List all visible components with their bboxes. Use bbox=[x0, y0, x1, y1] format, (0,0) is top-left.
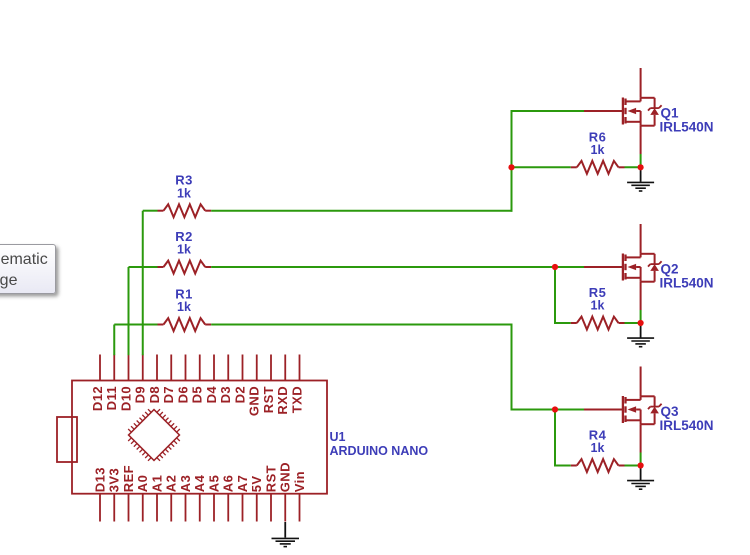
U1 bottom pin A2 bbox=[170, 494, 172, 522]
svg-text:A6: A6 bbox=[221, 475, 236, 492]
wire net to R1 left bbox=[114, 324, 157, 326]
svg-text:RST: RST bbox=[264, 465, 279, 492]
svg-text:5V: 5V bbox=[249, 475, 264, 492]
svg-text:REF: REF bbox=[121, 465, 136, 492]
svg-text:RXD: RXD bbox=[275, 386, 290, 415]
svg-text:U1: U1 bbox=[330, 430, 346, 444]
svg-text:D6: D6 bbox=[175, 386, 190, 403]
U1 bottom pin 5V bbox=[256, 494, 258, 522]
svg-text:IRL540N: IRL540N bbox=[660, 120, 714, 135]
U1 top pin D6 bbox=[185, 355, 187, 381]
svg-text:D4: D4 bbox=[204, 386, 219, 404]
U1 top pin D10 bbox=[128, 355, 130, 381]
wire D11 column bbox=[113, 325, 115, 356]
wire branch to R5 bbox=[554, 322, 571, 324]
svg-text:D10: D10 bbox=[118, 386, 133, 411]
svg-text:1k: 1k bbox=[591, 299, 605, 313]
ground at Q2 source bbox=[627, 326, 654, 347]
U1 top pin D3 bbox=[227, 355, 229, 381]
resistor R3 bbox=[158, 204, 212, 217]
wire D10 column bbox=[128, 267, 130, 355]
wire Q1 source to ground net bbox=[640, 154, 642, 167]
U1 bottom pin D13 bbox=[99, 494, 101, 522]
wire net to R5 left bbox=[570, 322, 572, 324]
U1 bottom pin Vin bbox=[299, 494, 301, 522]
junction Q1 source ground node bbox=[638, 164, 644, 170]
resistor R5 bbox=[571, 317, 625, 330]
U1 bottom pin 3V3 bbox=[113, 494, 115, 522]
U1 bottom pin A4 bbox=[199, 494, 201, 522]
transistor Q3 IRL540N bbox=[584, 367, 662, 453]
U1 bottom pin A6 bbox=[227, 494, 229, 522]
svg-text:A5: A5 bbox=[207, 475, 222, 492]
svg-text:RST: RST bbox=[261, 386, 276, 413]
svg-text:D9: D9 bbox=[133, 386, 148, 403]
svg-text:IRL540N: IRL540N bbox=[660, 418, 714, 433]
svg-text:D13: D13 bbox=[93, 467, 108, 492]
U1 top pin RXD bbox=[284, 355, 286, 381]
svg-text:A3: A3 bbox=[178, 475, 193, 492]
wire net to R3 left bbox=[143, 210, 158, 212]
wire branch dropper to R5 bbox=[554, 267, 556, 324]
svg-text:D7: D7 bbox=[161, 386, 176, 403]
tooltip Schematic Image bbox=[0, 244, 56, 294]
wire net to R2 left bbox=[129, 266, 158, 268]
svg-text:Q2: Q2 bbox=[661, 262, 679, 277]
U1 top pin D5 bbox=[199, 355, 201, 381]
U1 top pin RST bbox=[270, 355, 272, 381]
svg-text:GND: GND bbox=[278, 462, 293, 492]
U1 top pin TXD bbox=[299, 355, 301, 381]
wire Q3 source to ground net bbox=[640, 453, 642, 466]
svg-text:A0: A0 bbox=[135, 475, 150, 492]
svg-text:D8: D8 bbox=[147, 386, 162, 403]
wire branch to R4 bbox=[554, 465, 571, 467]
svg-text:D11: D11 bbox=[104, 386, 119, 410]
svg-text:1k: 1k bbox=[177, 300, 191, 314]
wire R5 right to net bbox=[625, 322, 641, 324]
wire branch dropper to R4 bbox=[554, 410, 556, 467]
IC U1 ARDUINO NANO body bbox=[72, 381, 327, 494]
transistor Q1 IRL540N bbox=[584, 68, 662, 154]
U1 microcontroller chip glyph bbox=[122, 403, 186, 467]
U1 top pin D8 bbox=[156, 355, 158, 381]
svg-text:A2: A2 bbox=[164, 475, 179, 492]
svg-text:A1: A1 bbox=[150, 475, 165, 492]
wire R1 right to net bbox=[211, 324, 512, 326]
svg-text:Vin: Vin bbox=[292, 471, 307, 492]
U1 top pin D11 bbox=[113, 355, 115, 381]
wire R1 net dropper to Q3 gate bbox=[511, 324, 513, 411]
U1 top pin D9 bbox=[142, 355, 144, 381]
U1 top pin GND bbox=[256, 355, 258, 381]
svg-text:3V3: 3V3 bbox=[107, 468, 122, 492]
junction Q2 source ground node bbox=[638, 320, 644, 326]
ground at Q3 source bbox=[627, 468, 654, 489]
svg-text:1k: 1k bbox=[591, 143, 605, 157]
resistor R2 bbox=[158, 261, 212, 274]
U1 top pin D12 bbox=[99, 355, 101, 381]
svg-text:D5: D5 bbox=[190, 386, 205, 403]
U1 bottom pin A5 bbox=[213, 494, 215, 522]
wire D9 column bbox=[142, 211, 144, 356]
svg-text:1k: 1k bbox=[177, 186, 191, 200]
wire Q2 source to ground net bbox=[640, 310, 642, 323]
junction R4 tap on Q3 gate net bbox=[552, 406, 558, 412]
junction R5 tap on Q2 gate net bbox=[552, 264, 558, 270]
U1 top pin D2 bbox=[242, 355, 244, 381]
svg-text:D12: D12 bbox=[90, 386, 105, 411]
resistor R4 bbox=[571, 459, 625, 472]
ground at Q1 source bbox=[627, 170, 654, 191]
resistor R1 bbox=[158, 318, 212, 331]
wire R4 right to net bbox=[625, 465, 641, 467]
svg-text:IRL540N: IRL540N bbox=[660, 276, 714, 291]
wire R2 right to net bbox=[211, 266, 584, 268]
U1 bottom pin A3 bbox=[185, 494, 187, 522]
U1 top pin D4 bbox=[213, 355, 215, 381]
svg-text:Q1: Q1 bbox=[661, 106, 680, 121]
U1 bottom pin A7 bbox=[242, 494, 244, 522]
U1 top pin D7 bbox=[170, 355, 172, 381]
wire R3 right to net bbox=[211, 210, 512, 212]
wire net to R4 left bbox=[570, 465, 572, 467]
svg-text:D3: D3 bbox=[218, 386, 233, 403]
ground GND of U1 bbox=[272, 522, 300, 547]
wire R6 right to net bbox=[625, 166, 641, 168]
U1 USB connector outline bbox=[57, 417, 77, 462]
svg-text:Q3: Q3 bbox=[661, 404, 680, 419]
U1 bottom pin A0 bbox=[142, 494, 144, 522]
svg-text:D2: D2 bbox=[232, 386, 247, 403]
junction Q3 source ground node bbox=[638, 462, 644, 468]
resistor R6 bbox=[571, 161, 625, 174]
U1 bottom pin GND bbox=[284, 494, 286, 522]
svg-text:GND: GND bbox=[247, 386, 262, 416]
U1 bottom pin REF bbox=[128, 494, 130, 522]
wire branch to R6 bbox=[512, 166, 571, 168]
svg-text:A7: A7 bbox=[235, 475, 250, 492]
wire net to R6 left bbox=[570, 166, 572, 168]
transistor Q2 IRL540N bbox=[584, 224, 662, 310]
U1 bottom pin A1 bbox=[156, 494, 158, 522]
wire Q3 gate row bbox=[511, 409, 585, 411]
wire R3 net riser to Q1 gate bbox=[511, 110, 513, 212]
junction R6 tap on Q1 gate net bbox=[508, 164, 514, 170]
wire Q1 gate row bbox=[511, 110, 585, 112]
U1 bottom pin RST bbox=[270, 494, 272, 522]
svg-text:1k: 1k bbox=[591, 441, 605, 455]
svg-text:TXD: TXD bbox=[289, 386, 304, 413]
svg-text:1k: 1k bbox=[177, 243, 191, 257]
svg-text:ARDUINO NANO: ARDUINO NANO bbox=[330, 444, 429, 458]
svg-text:A4: A4 bbox=[192, 474, 207, 492]
